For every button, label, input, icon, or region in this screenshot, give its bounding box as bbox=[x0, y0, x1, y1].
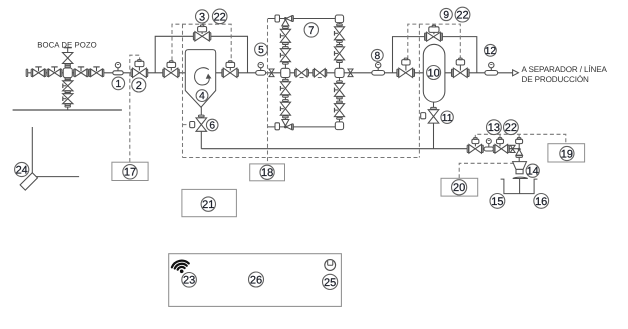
svg-text:A SEPARADOR / LÍNEA: A SEPARADOR / LÍNEA bbox=[522, 64, 608, 74]
manifold right cross block bbox=[335, 68, 344, 77]
svg-text:11: 11 bbox=[442, 113, 453, 124]
wellhead master valve lower bbox=[63, 94, 73, 104]
flanges right leg upper spool bbox=[337, 41, 343, 47]
dashed control box over valve 3 bbox=[172, 24, 231, 60]
wire vessel-4 bypass loop bbox=[155, 36, 247, 73]
manifold right leg valve R3 bbox=[334, 83, 344, 96]
burner spray dome bbox=[513, 177, 528, 178]
spool manifold top-left bbox=[275, 15, 280, 22]
flange above left cross bbox=[283, 62, 289, 64]
wellhead master valve upper bbox=[63, 81, 73, 91]
manifold right leg valve R2 bbox=[334, 47, 344, 60]
drain valve 11 with flange block bbox=[421, 110, 439, 123]
wire vessel-10 bypass loop bbox=[393, 37, 477, 73]
svg-text:25: 25 bbox=[324, 277, 336, 289]
dashed stem valve 3 bbox=[201, 24, 203, 26]
flange vessel-4 boot bbox=[199, 115, 205, 117]
svg-text:21: 21 bbox=[202, 199, 214, 211]
manifold center valve right bbox=[313, 69, 327, 78]
label circle 22a bbox=[212, 9, 227, 24]
label circle 16 bbox=[534, 194, 549, 209]
svg-text:23: 23 bbox=[183, 275, 195, 287]
dashed stem burner valve B bbox=[499, 134, 501, 139]
burner valve A with actuator bbox=[467, 138, 483, 154]
manifold right leg valve R1 bbox=[334, 27, 344, 40]
label circle 2 bbox=[132, 78, 146, 92]
manifold left leg valve L4 bbox=[280, 102, 290, 115]
label circle 15 bbox=[490, 194, 505, 209]
burner valve B with actuator bbox=[493, 138, 509, 154]
svg-text:5: 5 bbox=[258, 45, 264, 56]
label box 19 bbox=[548, 144, 585, 162]
dashed line box 20 to burner pot bbox=[459, 163, 513, 178]
dashed stub to valve 6 bbox=[183, 124, 190, 126]
svg-text:19: 19 bbox=[561, 148, 573, 160]
solar panel 24 bbox=[20, 173, 37, 190]
choke valve top-left corner bbox=[282, 16, 294, 26]
text BOCA DE POZO bbox=[37, 40, 97, 49]
wellhead gate valve W2 bbox=[47, 67, 62, 77]
valve vessel-10 inlet bbox=[397, 58, 415, 77]
svg-text:12: 12 bbox=[485, 46, 497, 57]
outlet arrow bbox=[513, 70, 519, 76]
wellhead vertical pipe bbox=[67, 53, 69, 110]
instrument 5 pressure gauge bbox=[256, 62, 266, 75]
wellhead gate valve W1 bbox=[31, 67, 46, 77]
wifi antenna icon 23 bbox=[171, 259, 191, 275]
label circle 11 bbox=[441, 111, 453, 124]
label circle 25 bbox=[323, 274, 338, 289]
svg-text:16: 16 bbox=[535, 196, 547, 208]
label circle 5 bbox=[255, 43, 268, 56]
flange above bottom-right block bbox=[337, 117, 343, 119]
svg-text:2: 2 bbox=[136, 80, 142, 92]
svg-text:20: 20 bbox=[453, 182, 465, 194]
instrument 12 pressure gauge bbox=[485, 62, 498, 75]
svg-text:18: 18 bbox=[261, 167, 273, 179]
dashed drop right loop riser bbox=[418, 24, 420, 157]
wire choke manifold left leg bbox=[284, 19, 286, 127]
label box 20 bbox=[441, 178, 478, 196]
wellhead flanges above cross bbox=[65, 64, 70, 68]
instrument drain gauge bbox=[484, 139, 494, 151]
valve vessel-4 inlet bbox=[163, 61, 179, 78]
wire choke manifold right leg bbox=[339, 19, 341, 127]
svg-text:3: 3 bbox=[199, 11, 205, 23]
vessel 4 swirl symbol bbox=[195, 68, 211, 85]
control valve 2 bbox=[131, 60, 148, 78]
power icon 25 bbox=[325, 260, 336, 271]
flange below left cross bbox=[283, 79, 289, 81]
label circle 1 bbox=[112, 77, 125, 90]
manifold top-right block bbox=[335, 15, 343, 23]
wire vessel-10 drain drop bbox=[433, 102, 435, 149]
svg-text:1: 1 bbox=[115, 79, 121, 90]
svg-text:7: 7 bbox=[308, 25, 314, 37]
label circle 7 bbox=[304, 23, 318, 37]
wellhead gate valve W4 bbox=[89, 67, 104, 77]
label circle 23 bbox=[182, 273, 197, 288]
svg-text:4: 4 bbox=[199, 91, 205, 102]
dashed stem burner angle valve bbox=[518, 134, 520, 139]
label circle 8 bbox=[371, 49, 383, 62]
dashed burner control line to box 19 bbox=[475, 134, 566, 143]
wellhead flanges at base bbox=[65, 104, 70, 107]
choke valve bottom-left corner bbox=[282, 120, 294, 130]
vessel 4 desander body bbox=[185, 50, 215, 108]
flanges left leg upper spool bbox=[283, 43, 289, 49]
manifold left leg valve L1 bbox=[280, 29, 290, 42]
label circle 3 bbox=[196, 10, 209, 24]
valve vessel-4 outlet bbox=[222, 61, 238, 78]
joint hourglass burner bbox=[510, 145, 515, 152]
wire drain header to burner line bbox=[201, 148, 519, 150]
label circle 13 bbox=[487, 120, 502, 135]
svg-text:8: 8 bbox=[374, 51, 380, 62]
svg-text:14: 14 bbox=[527, 166, 539, 178]
dashed bottom loop to box 18 area bbox=[183, 157, 420, 159]
wellhead cross block bbox=[63, 68, 72, 78]
label circle 22c bbox=[504, 120, 519, 135]
dashed drop left loop riser to drain loop bbox=[182, 24, 184, 157]
svg-text:17: 17 bbox=[124, 167, 136, 179]
label circle 22b bbox=[455, 7, 470, 22]
manifold left leg valve L2 bbox=[280, 49, 290, 62]
instrument 1 pressure gauge bbox=[113, 62, 123, 74]
dashed drop manifold boundary to box 18 bbox=[267, 19, 269, 164]
label circle 4 bbox=[196, 90, 208, 103]
svg-text:22: 22 bbox=[505, 122, 517, 134]
label box 18 bbox=[250, 164, 285, 181]
spool manifold bottom-left bbox=[275, 123, 280, 130]
label circle 24 bbox=[15, 162, 29, 176]
instrument 8 pressure gauge bbox=[372, 62, 385, 75]
flanges left leg lower spool bbox=[283, 95, 289, 101]
joint hourglass manifold outlet bbox=[348, 69, 353, 77]
label circle 14 bbox=[526, 164, 539, 178]
label box 21 bbox=[182, 189, 237, 216]
dashed control box over valve 9 bbox=[408, 24, 461, 59]
burner angle valve 14 top bbox=[516, 138, 523, 158]
svg-text:22: 22 bbox=[456, 10, 468, 22]
label box 17 bbox=[112, 162, 148, 180]
label circle 6 bbox=[206, 119, 218, 131]
manifold left cross block bbox=[281, 68, 290, 77]
flange below top-right block bbox=[337, 24, 343, 26]
text A SEPARADOR / LINEA DE PRODUCCION bbox=[522, 64, 608, 84]
svg-text:22: 22 bbox=[214, 11, 226, 23]
manifold left leg valve L3 bbox=[280, 82, 290, 95]
label circle 9 bbox=[440, 8, 452, 21]
burner pot 14 funnel bbox=[513, 157, 527, 173]
label circle 26 bbox=[249, 272, 264, 287]
equipment enclosure box bbox=[169, 254, 342, 307]
burner pit bbox=[501, 179, 538, 194]
wellhead gate valve W3 bbox=[74, 67, 89, 77]
manifold bottom-right block bbox=[335, 122, 343, 130]
wire choke manifold top header bbox=[268, 18, 340, 20]
vessel 10 body bbox=[423, 44, 445, 102]
joint hourglass manifold inlet bbox=[269, 69, 274, 77]
wire vessel-4 drain drop bbox=[200, 107, 202, 149]
flange below top-left choke bbox=[283, 27, 289, 29]
dashed signal valve-2 to box 17 with jog bbox=[130, 55, 140, 162]
wire mast horizontal bbox=[34, 176, 79, 178]
wellhead swab valve top bbox=[63, 48, 73, 64]
ground line bbox=[13, 109, 122, 111]
flange below left leg bbox=[283, 116, 289, 118]
drain valve 6 with flange block bbox=[190, 118, 207, 131]
wire main flow line from wellhead to outlet arrow bbox=[27, 72, 513, 74]
svg-text:15: 15 bbox=[491, 196, 503, 208]
bypass valve 9 bbox=[425, 25, 443, 41]
manifold right leg valve R4 bbox=[334, 104, 344, 117]
flange above right cross bbox=[337, 61, 343, 63]
wire mast vertical bbox=[31, 127, 33, 177]
svg-text:13: 13 bbox=[488, 122, 500, 134]
wellhead end flange bbox=[26, 69, 28, 76]
bypass valve 3 bbox=[193, 25, 210, 41]
svg-text:DE PRODUCCIÓN: DE PRODUCCIÓN bbox=[522, 74, 590, 84]
flange vessel-10 boot bbox=[431, 107, 437, 109]
label circle 10 bbox=[427, 66, 441, 80]
svg-text:26: 26 bbox=[250, 274, 262, 286]
svg-text:10: 10 bbox=[427, 67, 439, 79]
wire choke manifold bottom header bbox=[268, 126, 340, 128]
dashed stem valve 9 bbox=[433, 24, 435, 27]
svg-text:24: 24 bbox=[16, 164, 28, 176]
manifold center valve left bbox=[295, 69, 309, 78]
valve vessel-10 outlet bbox=[452, 58, 470, 77]
svg-text:9: 9 bbox=[443, 10, 449, 21]
svg-text:6: 6 bbox=[209, 121, 215, 132]
wellhead flanges between masters bbox=[65, 91, 70, 94]
label circle 12 bbox=[485, 44, 497, 57]
wellhead flanges below cross bbox=[65, 78, 70, 81]
flanges right leg lower spool bbox=[337, 97, 343, 103]
flange below right cross bbox=[337, 81, 343, 83]
